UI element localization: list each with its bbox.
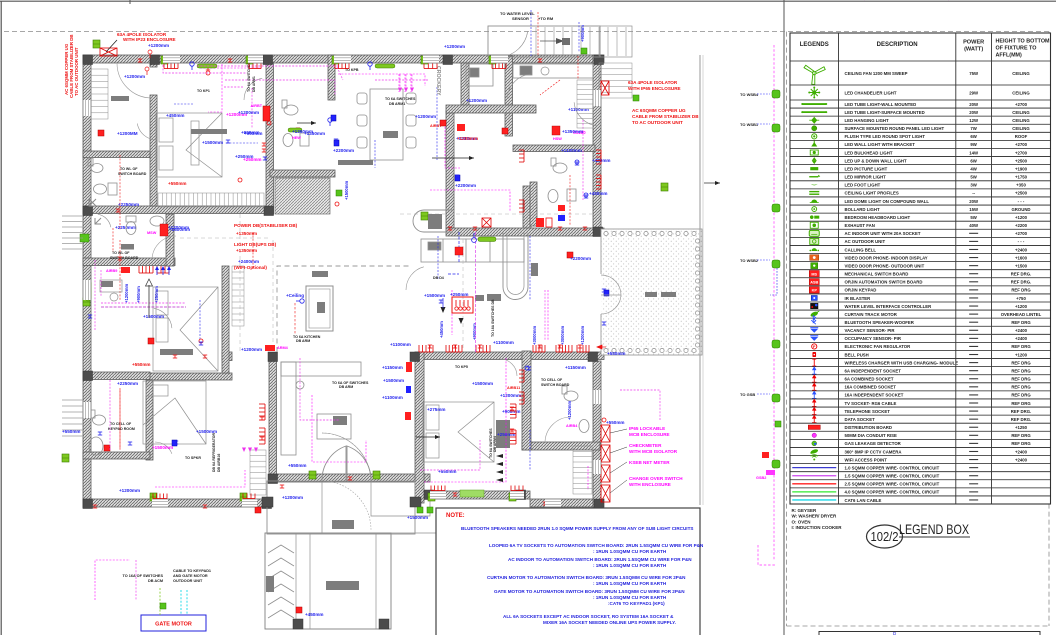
foyer powder toilet [126, 216, 164, 235]
legend row: LED CHANDELIER LIGHT [808, 87, 820, 99]
NE toilet fixtures [548, 158, 576, 203]
legend table outer frame [790, 33, 1051, 504]
svg-text:+3000mm: +3000mm [560, 326, 565, 345]
red symbol boxes [98, 130, 104, 136]
svg-text:TO WL OF: TO WL OF [112, 251, 130, 255]
svg-text:DB 6A REFRIGERATOR: DB 6A REFRIGERATOR [212, 433, 216, 472]
red curtain combs vertical [259, 404, 265, 420]
NW dresser [111, 96, 129, 101]
column at 268,474 [268, 474, 278, 484]
svg-text:BELL PUSH: BELL PUSH [845, 352, 869, 357]
svg-text:: 1RUN 1.0SQMM CU FOR EARTH: : 1RUN 1.0SQMM CU FOR EARTH [593, 563, 667, 568]
north stair arrow [540, 40, 562, 42]
svg-text:+1500mm: +1500mm [152, 445, 173, 450]
garage column left [293, 619, 303, 629]
wall NW bedroom west stub [150, 62, 157, 67]
svg-text:DB D4: DB D4 [433, 276, 444, 280]
svg-text:+2400: +2400 [1015, 247, 1028, 252]
svg-text:+275mm: +275mm [427, 407, 446, 412]
wall utility north [270, 170, 335, 177]
wall right exterior south [593, 361, 601, 507]
north stair treads [536, 27, 626, 56]
foyer corner arrows [89, 199, 101, 224]
svg-text:+1200: +1200 [1015, 215, 1028, 220]
wall mid-left bed east [222, 266, 229, 373]
svg-text:MCB ENCLOSURE: MCB ENCLOSURE [629, 432, 670, 437]
svg-text:TO 6A SWITCHES: TO 6A SWITCHES [385, 97, 416, 101]
legend table column lines [838, 33, 840, 504]
center wiring spine [475, 232, 477, 352]
mid-left bed bench [160, 349, 193, 355]
svg-text:KSEB NET METER: KSEB NET METER [629, 460, 670, 465]
kitchen appliance DB box [452, 297, 473, 313]
svg-text:+900mm: +900mm [472, 323, 477, 340]
wall dining west upper [328, 55, 335, 100]
wall living east [415, 352, 424, 503]
svg-text:CEILING LIGHT PROFILES: CEILING LIGHT PROFILES [845, 191, 899, 196]
wall left exterior [83, 55, 91, 508]
section arrow mid-left [146, 279, 153, 318]
NE toilet label cluster [552, 126, 583, 141]
magenta drop arrowheads NW [242, 448, 246, 453]
legend row: LED TUBE LIGHT-SURFACE MOUNTED [801, 111, 827, 113]
utility hatched block [275, 178, 330, 214]
legend row: ELECTRONIC FAN REGULATOR [812, 344, 817, 349]
mid-left wardrobe [232, 266, 244, 326]
wall NE toilet west [530, 182, 537, 226]
magenta wire 12 [95, 560, 130, 600]
NE stair upper [600, 26, 632, 57]
svg-text:+2700: +2700 [1015, 142, 1028, 147]
bottom wall red combs [153, 494, 167, 499]
blue symbol boxes [172, 440, 177, 446]
SE wardrobe comb [573, 446, 592, 494]
legend row: BELL PUSH [812, 352, 816, 357]
svg-text:WATER LEVEL INTERFACE CONTROLL: WATER LEVEL INTERFACE CONTROLLER [845, 304, 933, 309]
svg-text:- - -: - - - [1018, 239, 1025, 244]
svg-text:: 1RUN 1.0SQMM CU FOR EARTH: : 1RUN 1.0SQMM CU FOR EARTH [593, 595, 667, 600]
blue wire 5 [529, 236, 531, 300]
door arc [574, 102, 598, 126]
svg-text:CEILING: CEILING [1012, 126, 1030, 131]
svg-text:TO CELL OF: TO CELL OF [110, 422, 132, 426]
svg-text:+1500mm: +1500mm [424, 293, 445, 298]
legend row: ORJIN AUTOMATION SWITCH BOARD [809, 279, 819, 285]
red curtain combs [533, 345, 545, 352]
compound wall east [699, 55, 701, 505]
door arc [155, 442, 172, 454]
svg-text:BEDROOM HEADBOARD LIGHT: BEDROOM HEADBOARD LIGHT [845, 215, 911, 220]
column at 83,55 [83, 55, 93, 65]
gate motor cables [160, 588, 187, 615]
svg-text:+3000mm: +3000mm [532, 326, 537, 345]
svg-text:REF DRG: REF DRG [1011, 393, 1031, 398]
svg-text:CEILING: CEILING [1012, 118, 1030, 123]
MCB stack 1 [601, 425, 610, 442]
svg-text:LED WALL LIGHT WITH BRACKET: LED WALL LIGHT WITH BRACKET [845, 142, 916, 147]
hall dashed lines [180, 214, 600, 352]
svg-text:+2250mm: +2250mm [117, 381, 138, 386]
column at 262,499 [262, 499, 272, 509]
kitchen west wall red marks [457, 124, 465, 131]
svg-text:16A INDEPENDENT SOCKET: 16A INDEPENDENT SOCKET [845, 393, 904, 398]
legend row: VACANCY SENSOR- PIR [810, 328, 818, 333]
svg-text:LIGHT DB(UPS DB): LIGHT DB(UPS DB) [234, 242, 277, 247]
foyer green fixture [80, 234, 89, 242]
legend sheet dashed left [786, 32, 788, 626]
svg-text:+1200mm: +1200mm [444, 44, 465, 49]
garage column right [379, 619, 389, 629]
svg-text:BOLLARD LIGHT: BOLLARD LIGHT [845, 207, 880, 212]
leader lines to MCB labels [610, 429, 627, 493]
foyer gray block [121, 244, 134, 250]
blue dashed leaders [436, 87, 438, 160]
green fixtures on walls [93, 40, 100, 48]
svg-text:POWER DB(STABILISER DB): POWER DB(STABILISER DB) [234, 223, 298, 228]
svg-text:+1200mm: +1200mm [148, 43, 169, 48]
breakfast counter U [503, 233, 528, 300]
SW bed [143, 381, 206, 444]
svg-text:VIDEO DOOR PHONE- INDOOR DISPL: VIDEO DOOR PHONE- INDOOR DISPLAY [845, 255, 928, 260]
blue wire 4 [437, 236, 439, 280]
black arrows [297, 121, 316, 125]
mid-left red comb row [139, 266, 153, 273]
wall kitchen east lower [523, 186, 531, 229]
svg-text:(WATT): (WATT) [964, 47, 983, 53]
wall kitchen inner south [446, 105, 536, 113]
svg-text:: 1RUN 1.0SQMM CU FOR EARTH: : 1RUN 1.0SQMM CU FOR EARTH [593, 549, 667, 554]
SW toilet fixtures [89, 410, 106, 455]
svg-text:20W: 20W [969, 199, 979, 204]
porch column right [410, 497, 421, 507]
kitchen wall red X box [482, 218, 491, 227]
svg-text:+1150mm: +1150mm [382, 365, 403, 370]
boundary lights [772, 90, 780, 98]
svg-text:VACANCY SENSOR- PIR: VACANCY SENSOR- PIR [845, 328, 896, 333]
porch door arc [500, 31, 528, 57]
garage inner verticals [310, 534, 376, 629]
svg-text:DATA SOCKET: DATA SOCKET [845, 417, 876, 422]
svg-text:1.5 SQMM COPPER WIRE- CONTROL: 1.5 SQMM COPPER WIRE- CONTROL CIRCUIT [845, 474, 940, 479]
mid-left magenta horizontal runs [101, 270, 186, 307]
svg-text:+1500mm: +1500mm [383, 378, 404, 383]
svg-text:SWITCH BOARD: SWITCH BOARD [118, 172, 147, 176]
svg-text:REF DRG.: REF DRG. [1011, 417, 1032, 422]
svg-text:TV SOCKET- RG6 CABLE: TV SOCKET- RG6 CABLE [845, 401, 897, 406]
wall center south band [415, 352, 604, 360]
svg-text:DB ARM4: DB ARM4 [493, 436, 497, 452]
svg-text:29W: 29W [969, 90, 979, 95]
magenta wire 7 [445, 120, 460, 168]
legend row: LED PICTURE LIGHT [810, 167, 818, 170]
svg-text:(WIFI-Optional): (WIFI-Optional) [234, 265, 267, 270]
svg-text:CHANGE OVER SWITCH: CHANGE OVER SWITCH [629, 476, 683, 481]
wall foyer east [166, 214, 174, 266]
magenta wire 14 [451, 290, 453, 335]
garage interior block [326, 581, 359, 590]
svg-text:CEILING: CEILING [1012, 71, 1030, 76]
svg-text:5W: 5W [970, 175, 977, 180]
left wall green capsule window [85, 280, 91, 301]
svg-text:REF DRG: REF DRG [1011, 288, 1031, 293]
plot boundary dashed right [1048, 32, 1050, 626]
svg-text:3W: 3W [970, 183, 977, 188]
right wall window breaks [593, 90, 601, 106]
compound wall east inner [702, 55, 704, 505]
GATE MOTOR box [141, 615, 206, 631]
svg-text:LED BULKHEAD LIGHT: LED BULKHEAD LIGHT [845, 150, 893, 155]
svg-text:50MM DIA CONDUIT RISE: 50MM DIA CONDUIT RISE [845, 433, 897, 438]
legend row: LED UP & DOWN WALL LIGHT [812, 157, 817, 164]
socket symbols blue [226, 140, 230, 143]
svg-text:ROOF: ROOF [1015, 134, 1028, 139]
svg-text:AC OUTDOOR UNIT: AC OUTDOOR UNIT [845, 239, 886, 244]
svg-text:+1350mm: +1350mm [236, 231, 257, 236]
wall SW bath south [83, 452, 150, 459]
garage ramp chevrons [268, 545, 294, 618]
top border tick [129, 0, 131, 4]
svg-text:+550mm: +550mm [288, 463, 307, 468]
foyer red dashdot [112, 228, 114, 252]
svg-text:DB AIRB16: DB AIRB16 [217, 454, 221, 472]
svg-text:+1100mm: +1100mm [493, 340, 514, 345]
kitchen lower counters [421, 239, 524, 262]
wall NW block south [83, 206, 273, 214]
svg-text:+450mm: +450mm [439, 321, 444, 338]
svg-text:WIRELESS CHARGER WITH USB CHAR: WIRELESS CHARGER WITH USB CHARGING- MODU… [845, 360, 959, 365]
legend row: 360° 8MP IP CCTV CAMERA [810, 448, 819, 454]
svg-text:CALLING BELL: CALLING BELL [845, 247, 877, 252]
svg-text:CURTAIN MOTOR TO AUTOMATION SW: CURTAIN MOTOR TO AUTOMATION SWITCH BOARD… [487, 575, 686, 580]
legend row: 6A COMBINED SOCKET [812, 375, 816, 382]
legend row: TV SOCKET- RG6 CABLE [812, 400, 816, 407]
svg-text:GAS LEAKAGE DETECTOR: GAS LEAKAGE DETECTOR [845, 441, 902, 446]
magenta wire 5 [404, 74, 406, 92]
NE exterior stair [599, 63, 632, 98]
extra magenta corridor wiring [197, 65, 340, 67]
svg-text:+250mm: +250mm [450, 292, 469, 297]
dining magenta diagonal [337, 67, 343, 80]
column at 594,499 [594, 499, 604, 509]
svg-text:CURTAIN TRACK MOTOR: CURTAIN TRACK MOTOR [845, 312, 898, 317]
svg-text:LED DOME LIGHT ON COMPOUND WAL: LED DOME LIGHT ON COMPOUND WALL [845, 199, 930, 204]
svg-text:ELECTRONIC FAN REGULATOR: ELECTRONIC FAN REGULATOR [845, 344, 912, 349]
NE internal stair comb [577, 80, 593, 128]
svg-text:2.5 SQMM COPPER WIRE- CONTROL: 2.5 SQMM COPPER WIRE- CONTROL CIRCUIT [845, 482, 940, 487]
door arc [406, 267, 424, 290]
column at 150,55 [150, 55, 160, 65]
magenta wire 8 [430, 190, 510, 212]
legend row: WIFI ACCESS POINT [811, 455, 818, 461]
door arc [98, 214, 111, 227]
isolator leader line [106, 40, 117, 52]
wall kitchen west upper [461, 63, 469, 108]
legend row: CALLING BELL [809, 248, 819, 251]
svg-text:+450mm: +450mm [589, 191, 608, 196]
red wire 4 [119, 390, 121, 450]
legend row: MECHANICAL SWITCH BOARD [809, 271, 819, 277]
wall SW west stub [83, 372, 150, 380]
SE toilet door arc [545, 417, 571, 443]
svg-text:TO AC OUTDOOR UNIT: TO AC OUTDOOR UNIT [632, 120, 683, 125]
svg-text:GATE MOTOR: GATE MOTOR [155, 622, 192, 628]
svg-text:NOTE:: NOTE: [446, 513, 465, 519]
NE right-wall red cluster [558, 175, 570, 225]
legend row: WIRELESS CHARGER WITH USB CHARGING- MODULE [812, 359, 816, 366]
svg-text:40W: 40W [969, 223, 979, 228]
blue wire 3 [199, 300, 201, 340]
column at 588,352 [588, 352, 598, 362]
legend row: BLUETOOTH SPEAKER-WOOFER [811, 316, 816, 325]
svg-text:+1600: +1600 [1015, 255, 1028, 260]
NOTE label [446, 513, 465, 519]
svg-text:GSB2: GSB2 [756, 476, 766, 480]
svg-text:HSW: HSW [553, 137, 562, 141]
svg-text:6W: 6W [970, 134, 977, 139]
porch column left [262, 497, 273, 507]
green tube lights top [197, 64, 395, 132]
counter appliance block [428, 214, 442, 229]
hall red dashed drop [294, 303, 296, 334]
svg-text:CEILING: CEILING [1012, 90, 1030, 95]
legend row: AC OUTDOOR UNIT [810, 238, 819, 244]
svg-text:LED TUBE LIGHT-WALL MOUNTED: LED TUBE LIGHT-WALL MOUNTED [845, 102, 917, 107]
svg-text:I: INDUCTION COOKER: I: INDUCTION COOKER [792, 525, 843, 530]
svg-text:+2700: +2700 [1015, 102, 1028, 107]
legend row: GAS LEAKAGE DETECTOR [812, 441, 817, 446]
svg-text:+1200mm: +1200mm [119, 488, 140, 493]
svg-text:IP65 LOCKABLE: IP65 LOCKABLE [629, 426, 665, 431]
hall blue key symbol [296, 299, 304, 303]
svg-text:+1100mm: +1100mm [382, 395, 403, 400]
svg-text:AIRBT: AIRBT [251, 104, 263, 108]
legend row: 6A INDEPENDENT SOCKET [812, 367, 816, 374]
svg-text:SWITCH BOARD: SWITCH BOARD [110, 256, 139, 260]
svg-text:DB ARM: DB ARM [296, 339, 310, 343]
wall NW toilet south [83, 151, 150, 158]
legend row: BEDROOM HEADBOARD LIGHT [810, 215, 819, 219]
wall SW bath east [146, 380, 153, 460]
svg-text:LED UP & DOWN WALL LIGHT: LED UP & DOWN WALL LIGHT [845, 158, 908, 163]
svg-text:15W: 15W [969, 207, 979, 212]
svg-text:GATE MOTOR TO AUTOMATION SWITC: GATE MOTOR TO AUTOMATION SWITCH BOARD: 3… [494, 589, 685, 594]
drawing number ellipse 102/2 [867, 525, 903, 548]
wall right exterior north [593, 55, 601, 236]
dining table [370, 89, 403, 160]
svg-text:WITH MCB ISOLATOR: WITH MCB ISOLATOR [629, 449, 678, 454]
NW closet comb [91, 69, 108, 119]
entry porch outline [488, 26, 600, 57]
magenta wire 3 [338, 74, 425, 86]
svg-text:ALL 6A SOCKETS EXCEPT AC INDOO: ALL 6A SOCKETS EXCEPT AC INDOOR SOCKET, … [503, 614, 674, 619]
svg-text:+1350mm: +1350mm [562, 129, 583, 134]
SE door arc top [500, 359, 517, 376]
svg-text:+550mm: +550mm [168, 181, 187, 186]
svg-text:+900mm: +900mm [241, 130, 260, 135]
svg-text:BLUETOOTH SPEAKER-WOOFER: BLUETOOTH SPEAKER-WOOFER [845, 320, 915, 325]
svg-text:+1500mm: +1500mm [143, 314, 164, 319]
window breaks on walls [163, 55, 180, 63]
svg-text:REF DRG: REF DRG [1011, 344, 1031, 349]
svg-text:AC INDOOR UNIT WITH 20A SOCKET: AC INDOOR UNIT WITH 20A SOCKET [845, 231, 921, 236]
north toilet fixtures [282, 100, 309, 147]
mid-left bed [153, 287, 218, 371]
svg-text:+1200mm: +1200mm [466, 98, 487, 103]
blue wire 1 [530, 10, 532, 56]
legend row: EXHAUST FAN [810, 222, 818, 228]
legend row: LED HANGING LIGHT [809, 117, 819, 124]
dining bench [338, 160, 373, 165]
isolator NE [601, 81, 609, 95]
svg-text:CABLE FROM STABILIZER DB: CABLE FROM STABILIZER DB [632, 114, 699, 119]
svg-text:LEGENDS: LEGENDS [800, 42, 829, 48]
svg-text:+750: +750 [1016, 296, 1026, 301]
legend row: 50MM DIA CONDUIT RISE [812, 433, 816, 437]
svg-text:TO 16A SWITCHES DB: TO 16A SWITCHES DB [491, 299, 495, 337]
wall kitchen south [446, 228, 604, 236]
kitchen counter blocks [475, 263, 538, 301]
svg-text:HEW: HEW [292, 136, 301, 140]
svg-text:+1200: +1200 [1015, 304, 1028, 309]
svg-text:+250mm: +250mm [154, 286, 159, 303]
boundary wiring magenta dashed [773, 45, 775, 560]
svg-text:+1200mm: +1200mm [580, 326, 585, 345]
svg-text:+1250: +1250 [1015, 425, 1028, 430]
wall bottom bed segment [424, 491, 530, 499]
wall mid-left bed south [147, 373, 232, 380]
svg-text:+1200mm: +1200mm [124, 284, 129, 303]
svg-text:+1500mm: +1500mm [472, 381, 493, 386]
legend row: CAT6 LAN CABLE [792, 499, 836, 501]
misc colored dots [206, 71, 210, 75]
svg-text:FLUSH TYPE LED ROUND SPOT LIGH: FLUSH TYPE LED ROUND SPOT LIGHT [845, 134, 926, 139]
svg-text:AC 6SQMM COPPER UG: AC 6SQMM COPPER UG [632, 108, 686, 113]
MCB stack 2 [601, 445, 610, 462]
svg-text:+550mm: +550mm [606, 420, 625, 425]
svg-text:+1750: +1750 [1015, 175, 1028, 180]
svg-text:IR BLASTER: IR BLASTER [845, 296, 872, 301]
svg-text:AIRB9: AIRB9 [106, 269, 117, 273]
terrace border circles [604, 231, 700, 352]
garage ramp divider [295, 533, 297, 629]
sheet top border [0, 0, 1056, 2]
SE side unit [496, 420, 510, 448]
sheet divider line [783, 0, 785, 635]
svg-text:+1500mm: +1500mm [202, 140, 223, 145]
column at 516,490 [516, 490, 526, 500]
svg-text:+1350mm: +1350mm [236, 248, 257, 253]
NW magenta loop [163, 65, 247, 87]
legend sheet dashed bottom [787, 625, 1050, 627]
svg-text:ORJIN KEYPAD: ORJIN KEYPAD [845, 288, 877, 293]
NW bedroom desk [191, 121, 227, 165]
living coffee table [317, 414, 351, 439]
magenta wire 6 [410, 74, 412, 92]
legend row: 1.0 SQMM COPPER WIRE- CONTROL CIRCUIT [792, 467, 836, 469]
red label isolator NW [117, 32, 167, 37]
svg-text:+2700: +2700 [1015, 231, 1028, 236]
plot boundary dashed top [4, 31, 1050, 33]
svg-text:ASB: ASB [810, 280, 818, 284]
legend row: CEILING LIGHT PROFILES [809, 191, 819, 195]
svg-text:+250mm: +250mm [235, 154, 254, 159]
svg-text:DISTRIBUTION BOARD: DISTRIBUTION BOARD [845, 425, 893, 430]
svg-text:+2250mm: +2250mm [115, 225, 136, 230]
hall gray block [312, 271, 328, 277]
svg-text:: 1RUN 1.0SQMM CU FOR EARTH: : 1RUN 1.0SQMM CU FOR EARTH [593, 581, 667, 586]
boundary blue bracket [770, 268, 777, 295]
SW outside steps [62, 400, 83, 436]
